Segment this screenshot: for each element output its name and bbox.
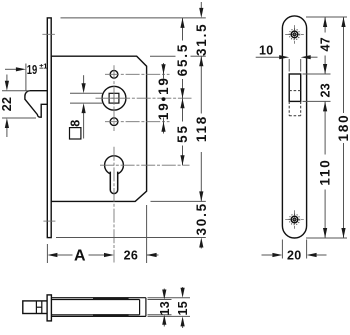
extension line case right edge: [146, 205, 148, 263]
centre line hub: [96, 97, 192, 99]
euro profile cylinder hole: [105, 156, 124, 194]
dimension 118: [194, 56, 209, 201]
dimension 30.5: [194, 202, 209, 248]
extension line plate bottom: [306, 237, 347, 239]
dimension 180: [336, 17, 350, 238]
latch hidden outline below: [289, 101, 301, 115]
svg-text:55: 55: [175, 124, 190, 143]
svg-text:31.5: 31.5: [194, 23, 209, 56]
latch opening: [289, 74, 301, 101]
extension lines 15: [148, 298, 191, 317]
svg-text:30.5: 30.5: [194, 202, 209, 235]
extension line plate top: [306, 16, 347, 18]
dimension 13: [158, 289, 172, 327]
svg-text:22: 22: [0, 97, 14, 112]
dimension 47: [319, 17, 333, 74]
svg-text:19•19: 19•19: [156, 76, 171, 120]
faceplate (bottom view): [47, 295, 51, 321]
centre line upper hole: [105, 73, 170, 75]
extension lines 13: [148, 300, 172, 315]
latch hidden edge: [289, 90, 301, 92]
bottom screw hole: [285, 210, 304, 229]
latch bolt (side view): [25, 91, 48, 118]
case inner profile (bottom view): [51, 300, 139, 315]
dimension 23: [319, 83, 333, 98]
centre line cylinder: [100, 164, 190, 166]
top screw hole: [285, 25, 304, 44]
spindle hub square 8mm: [109, 93, 119, 103]
svg-text:15: 15: [176, 301, 190, 316]
dimension 22: [0, 75, 36, 138]
dimension 65.5: [175, 18, 190, 98]
dimension 8 (hub square): [69, 75, 103, 139]
centre line lower hole: [105, 121, 170, 123]
extension line opening bottom: [303, 100, 331, 102]
dimension 110: [318, 101, 333, 238]
latch bolt marks: [36, 301, 41, 314]
svg-text:118: 118: [194, 115, 209, 142]
case outer profile (bottom view): [51, 298, 145, 317]
dimension 15: [176, 287, 190, 328]
faceplate (edge view, left drawing): [47, 18, 51, 238]
upper fixing hole: [110, 70, 118, 78]
dimension 10: [256, 44, 318, 60]
dimension 31.5: [194, 2, 209, 56]
svg-text:110: 110: [318, 158, 333, 185]
dimension 55: [175, 98, 190, 165]
svg-text:180: 180: [336, 114, 350, 142]
centre line vertical hub: [113, 65, 115, 131]
lower fixing hole: [110, 118, 118, 126]
svg-text:A: A: [74, 247, 86, 264]
centre line vertical cylinder (extends to A/26 dimension): [113, 147, 115, 263]
cover plate thick edge bottom: [93, 314, 129, 317]
dimension 19±1: [5, 61, 47, 91]
svg-text:8: 8: [69, 119, 83, 126]
dimension A: [47, 247, 114, 264]
svg-text:65.5: 65.5: [175, 43, 190, 76]
faceplate screw centre tick top: [42, 33, 55, 35]
latch bolt (bottom view): [23, 301, 47, 314]
svg-text:20: 20: [287, 248, 302, 262]
svg-text:23: 23: [319, 83, 333, 98]
extension line case bottom: [151, 200, 206, 202]
latch width extension lines: [289, 59, 301, 72]
dimension 20: [262, 240, 327, 263]
extension line faceplate top: [61, 17, 206, 19]
faceplate front outline: [282, 16, 306, 238]
extension line case top: [150, 55, 206, 57]
spindle hub circle: [102, 86, 126, 110]
svg-text:±1: ±1: [39, 61, 47, 70]
cover plate thick edge top: [93, 297, 129, 300]
dimension 26: [124, 249, 159, 263]
lock case body: [51, 56, 146, 201]
dimension 19•19: [156, 63, 171, 134]
svg-text:10: 10: [259, 44, 274, 58]
extension line faceplate left for A: [46, 244, 48, 263]
svg-text:47: 47: [319, 37, 333, 52]
faceplate screw centre tick bottom: [43, 220, 55, 222]
svg-text:26: 26: [124, 249, 139, 263]
svg-text:13: 13: [158, 301, 172, 316]
svg-text:19: 19: [27, 63, 38, 77]
extension line opening top: [303, 73, 331, 75]
extension line faceplate bottom: [56, 237, 206, 239]
